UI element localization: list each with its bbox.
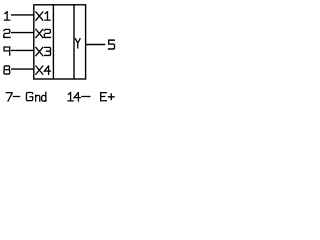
power net label E+	[101, 93, 114, 101]
output label Y	[75, 39, 80, 48]
pin 1 wire	[11, 14, 34, 16]
input label X4	[36, 66, 51, 74]
field divider right	[73, 5, 75, 79]
input label X2	[36, 29, 51, 37]
ground net label Gnd	[26, 92, 45, 101]
input label X3	[36, 47, 51, 55]
ground pin label 7-	[6, 93, 19, 101]
pin 5 output wire	[86, 44, 106, 46]
pin number 1	[5, 12, 10, 20]
pin number 2	[4, 29, 10, 37]
input label X1	[36, 12, 50, 20]
field divider left	[52, 5, 54, 79]
power pin label 14-	[68, 93, 90, 101]
pin number 5	[108, 40, 114, 49]
pin number 8	[4, 66, 10, 74]
background	[0, 0, 120, 105]
pin 9 wire	[11, 49, 34, 51]
pin number 9	[4, 47, 10, 55]
IC body outline U1	[34, 5, 86, 79]
pin 2 wire	[11, 32, 34, 34]
pin 8 wire	[11, 68, 34, 70]
